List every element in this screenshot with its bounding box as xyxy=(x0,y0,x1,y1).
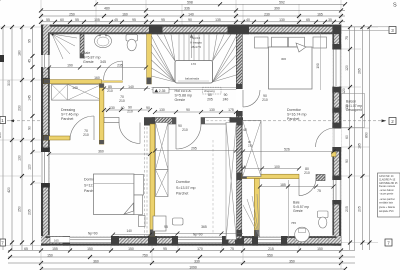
svg-text:120: 120 xyxy=(28,164,32,170)
svg-text:185: 185 xyxy=(280,183,286,187)
BL bedroom door xyxy=(119,123,140,144)
svg-text:210: 210 xyxy=(127,109,133,113)
svg-text:750: 750 xyxy=(142,253,148,257)
BL bed xyxy=(94,174,135,215)
svg-text:75: 75 xyxy=(345,36,349,40)
svg-text:140: 140 xyxy=(72,86,78,90)
svg-text:- acces balcon: - acces balcon xyxy=(379,190,395,192)
svg-text:CLADIRE P+1E: CLADIRE P+1E xyxy=(379,178,396,181)
interior gray wall: stair right vertical x236-242 top xyxy=(236,34,242,116)
svg-text:265: 265 xyxy=(358,68,362,74)
svg-text:H treapta: H treapta xyxy=(190,40,202,44)
svg-text:420: 420 xyxy=(7,187,11,193)
svg-text:- acces gresie: - acces gresie xyxy=(379,193,394,196)
TL bath door xyxy=(104,61,123,80)
furniture: TL toilet xyxy=(126,35,138,42)
porch step box outside bottom wall xyxy=(50,237,70,243)
svg-text:295: 295 xyxy=(191,147,197,151)
svg-text:75: 75 xyxy=(230,247,234,251)
svg-text:Parchet: Parchet xyxy=(61,117,73,121)
svg-text:526: 526 xyxy=(284,148,290,152)
svg-text:135: 135 xyxy=(215,18,221,22)
svg-text:S=5.88 mp: S=5.88 mp xyxy=(175,94,192,98)
svg-text:890: 890 xyxy=(365,132,369,138)
svg-text:155: 155 xyxy=(52,247,58,251)
svg-text:90: 90 xyxy=(28,126,32,130)
yellow wall H1 (bath south) xyxy=(44,80,123,84)
svg-text:40: 40 xyxy=(121,106,125,110)
yellow wall V1 (dressing east) xyxy=(99,84,104,145)
svg-text:Gresie: Gresie xyxy=(83,60,94,64)
yellow wall V3 (center, long) xyxy=(150,124,155,236)
svg-text:165: 165 xyxy=(317,12,323,16)
stair walk line xyxy=(190,35,193,59)
stairs xyxy=(151,34,236,89)
svg-text:65: 65 xyxy=(306,18,310,22)
svg-text:140: 140 xyxy=(188,12,194,16)
svg-text:28x17.5: 28x17.5 xyxy=(191,45,201,49)
svg-text:GROSIME ZID 25: GROSIME ZID 25 xyxy=(379,183,398,185)
svg-text:235: 235 xyxy=(117,64,123,68)
balcony outline xyxy=(342,94,365,128)
bath partition stub xyxy=(80,34,84,58)
interior gray wall: middle horizontal y117.5 xyxy=(152,118,176,125)
svg-text:balustrada: balustrada xyxy=(185,77,199,81)
svg-text:210: 210 xyxy=(262,98,268,102)
svg-text:890: 890 xyxy=(0,132,2,138)
svg-text:tamplarie PVC: tamplarie PVC xyxy=(379,210,394,213)
exterior walls: two-band cavity construction xyxy=(41,25,341,246)
svg-text:205: 205 xyxy=(207,98,213,102)
svg-text:160: 160 xyxy=(122,12,128,16)
window right wall (bedroom) xyxy=(332,50,341,87)
svg-text:- acces parchet: - acces parchet xyxy=(379,198,395,201)
left marker dashed arrow xyxy=(7,120,41,122)
svg-text:Dormitor: Dormitor xyxy=(176,180,191,184)
svg-text:90: 90 xyxy=(186,108,190,112)
svg-text:765: 765 xyxy=(291,221,296,225)
svg-text:480: 480 xyxy=(104,7,110,11)
window bottom wall (BM bedroom) xyxy=(178,236,222,243)
left winder fan xyxy=(151,36,175,82)
svg-text:160: 160 xyxy=(94,76,100,80)
svg-text:190: 190 xyxy=(67,64,73,68)
bath BR door xyxy=(299,179,316,196)
door opening in bedroom left wall xyxy=(236,89,243,111)
svg-text:145: 145 xyxy=(28,95,32,101)
svg-text:CASO NR. 2C: CASO NR. 2C xyxy=(379,175,394,178)
legend box xyxy=(378,173,400,217)
right dimension chain lines xyxy=(350,27,370,250)
top flight treads xyxy=(178,34,180,60)
window left wall (bedroom) xyxy=(41,148,50,188)
svg-text:105: 105 xyxy=(94,18,100,22)
svg-text:210: 210 xyxy=(182,128,188,132)
bottom landing edge xyxy=(151,87,236,89)
dashed beam line through bedroom to marker 2 xyxy=(243,120,388,122)
small yellow pier right wall xyxy=(332,152,337,157)
dressing door xyxy=(70,116,94,140)
balcony door xyxy=(316,128,335,147)
svg-text:130: 130 xyxy=(279,18,285,22)
svg-text:140: 140 xyxy=(128,85,134,89)
svg-text:235: 235 xyxy=(28,209,32,215)
window bottom wall (BL bedroom) xyxy=(70,236,111,243)
svg-text:gresie + faianta: gresie + faianta xyxy=(379,206,395,209)
yellow wall H3 (bath north) xyxy=(242,174,299,178)
svg-text:35: 35 xyxy=(328,18,332,22)
svg-text:95: 95 xyxy=(132,18,136,22)
BR toilet xyxy=(318,211,329,218)
svg-text:345: 345 xyxy=(100,60,106,64)
window left wall small (bath) xyxy=(41,55,50,67)
svg-text:210: 210 xyxy=(248,144,253,148)
svg-text:150: 150 xyxy=(128,247,134,251)
left wall xyxy=(41,25,50,246)
svg-text:S=16.74 mp: S=16.74 mp xyxy=(287,113,306,117)
svg-text:210: 210 xyxy=(119,99,125,103)
pier right of bath door xyxy=(316,175,325,181)
svg-text:95: 95 xyxy=(163,247,167,251)
svg-text:598: 598 xyxy=(187,1,193,5)
yellow wall H2 (dressing south) xyxy=(44,136,70,140)
svg-text:365: 365 xyxy=(201,225,207,229)
dressing wardrobe X xyxy=(52,84,103,100)
BM bedroom door xyxy=(176,124,201,149)
svg-text:Hol cu c.a.: Hol cu c.a. xyxy=(175,89,192,93)
svg-text:130: 130 xyxy=(109,106,115,110)
svg-text:210: 210 xyxy=(83,133,89,137)
svg-text:S=13.57 mp: S=13.57 mp xyxy=(176,186,195,190)
interior dim texts xyxy=(67,64,321,229)
svg-text:90: 90 xyxy=(188,18,192,22)
dashed line left of V3 xyxy=(144,127,146,236)
svg-text:120: 120 xyxy=(342,88,346,94)
svg-text:Gresie: Gresie xyxy=(175,98,186,102)
svg-text:390: 390 xyxy=(274,7,280,11)
right winder fan xyxy=(213,34,218,61)
svg-text:Parchet: Parchet xyxy=(176,192,188,196)
balcony door opening in right wall xyxy=(332,129,341,148)
svg-text:592: 592 xyxy=(279,1,285,5)
top dimension chain lines xyxy=(41,4,345,22)
svg-text:185: 185 xyxy=(358,143,362,149)
svg-text:120: 120 xyxy=(345,65,349,71)
svg-text:55: 55 xyxy=(46,18,50,22)
svg-text:306: 306 xyxy=(281,57,286,61)
svg-text:100: 100 xyxy=(274,165,280,169)
svg-text:210: 210 xyxy=(304,171,310,175)
BR shower screen dashed xyxy=(288,180,290,238)
BR sink pedestal xyxy=(295,227,310,242)
svg-text:95: 95 xyxy=(161,18,165,22)
top wall xyxy=(41,25,341,35)
svg-text:ventilatie baie: ventilatie baie xyxy=(379,202,394,205)
closet column X between BM and wall xyxy=(226,123,236,240)
TL door fan xyxy=(52,34,77,59)
svg-text:360: 360 xyxy=(98,150,104,154)
svg-text:55: 55 xyxy=(75,18,79,22)
yellow wall V2 (stair left) xyxy=(147,34,152,84)
chepeng dashed hatch xyxy=(203,87,222,94)
BM desk + chair xyxy=(153,216,166,231)
svg-text:205: 205 xyxy=(358,206,362,212)
svg-text:Dormitor: Dormitor xyxy=(287,108,302,112)
doors (arcs) xyxy=(70,61,335,196)
svg-text:230: 230 xyxy=(264,12,270,16)
svg-text:Np=90: Np=90 xyxy=(193,233,203,237)
yellow wall V4 (bath west) xyxy=(254,179,259,236)
svg-text:330: 330 xyxy=(194,259,200,263)
svg-text:180: 180 xyxy=(18,50,22,56)
stair text block xyxy=(190,36,202,49)
BM wardrobe with X tall xyxy=(156,123,169,170)
TR bedroom door from hall xyxy=(243,90,260,107)
svg-text:150: 150 xyxy=(87,247,93,251)
dimension extension lines top xyxy=(41,0,341,27)
svg-text:90: 90 xyxy=(224,93,228,97)
svg-text:65: 65 xyxy=(24,247,28,251)
svg-text:60: 60 xyxy=(60,18,64,22)
top dim ticks xyxy=(0,0,2,2)
bottom dimension chain lines xyxy=(8,251,355,270)
svg-text:Descoperit: Descoperit xyxy=(346,108,362,112)
svg-text:80: 80 xyxy=(208,93,212,97)
svg-text:140: 140 xyxy=(127,229,133,233)
svg-text:S: S xyxy=(393,3,397,9)
svg-text:Baie: Baie xyxy=(83,51,90,55)
svg-text:110: 110 xyxy=(240,165,246,169)
svg-text:95: 95 xyxy=(164,225,168,229)
svg-text:S=7.46 mp: S=7.46 mp xyxy=(61,113,78,117)
svg-text:Dressing: Dressing xyxy=(61,108,75,112)
window bottom wall (bath BR) xyxy=(258,236,281,243)
window right wall (bath) xyxy=(332,180,341,200)
bottom wall xyxy=(41,236,341,246)
svg-text:130: 130 xyxy=(159,108,165,112)
top dim numbers xyxy=(46,1,332,23)
interior gray wall: continues to bottom xyxy=(236,116,242,239)
svg-text:130: 130 xyxy=(18,155,22,161)
svg-text:130: 130 xyxy=(209,108,215,112)
svg-text:250: 250 xyxy=(18,206,22,212)
svg-text:Np=90: Np=90 xyxy=(88,232,98,236)
room labels xyxy=(61,51,362,237)
svg-text:Np=15: Np=15 xyxy=(192,36,201,40)
BL side cabinets xyxy=(134,175,144,196)
svg-text:336: 336 xyxy=(184,7,190,11)
svg-text:40: 40 xyxy=(246,18,250,22)
svg-text:45: 45 xyxy=(114,18,118,22)
svg-text:360: 360 xyxy=(93,259,99,263)
svg-text:170: 170 xyxy=(197,247,203,251)
svg-text:205: 205 xyxy=(345,206,349,212)
svg-text:2.35: 2.35 xyxy=(159,89,166,93)
svg-text:215: 215 xyxy=(268,247,274,251)
svg-text:60: 60 xyxy=(345,135,349,139)
svg-text:Gresie: Gresie xyxy=(293,209,303,213)
svg-text:230: 230 xyxy=(18,105,22,111)
interior dim lines xyxy=(49,68,334,235)
level marker hall xyxy=(153,88,169,94)
bottom window extension lines xyxy=(31,152,341,269)
svg-text:550: 550 xyxy=(267,253,273,257)
svg-text:175: 175 xyxy=(228,108,234,112)
balustrade xyxy=(175,61,213,84)
svg-text:S=5.87 mp: S=5.87 mp xyxy=(83,56,100,60)
svg-text:240: 240 xyxy=(223,98,229,102)
BR corner shower fan xyxy=(243,194,260,237)
svg-text:350: 350 xyxy=(289,259,295,263)
svg-text:95: 95 xyxy=(28,39,32,43)
svg-text:250: 250 xyxy=(69,12,75,16)
TR wardrobe with X xyxy=(243,121,261,177)
svg-text:1090: 1090 xyxy=(189,265,197,269)
right wall xyxy=(332,25,341,246)
svg-text:210: 210 xyxy=(107,89,113,93)
svg-text:170: 170 xyxy=(191,62,196,66)
left dimension chain lines xyxy=(3,27,33,250)
svg-text:90: 90 xyxy=(146,106,150,110)
svg-text:150: 150 xyxy=(317,247,323,251)
svg-text:165: 165 xyxy=(54,238,59,242)
dashed vent line BM room xyxy=(212,140,214,233)
svg-text:300: 300 xyxy=(7,80,11,86)
svg-text:Parchet: Parchet xyxy=(287,117,299,121)
svg-text:40: 40 xyxy=(243,128,247,132)
svg-text:75: 75 xyxy=(317,189,321,193)
svg-text:90: 90 xyxy=(345,159,349,163)
TR bedroom furniture: nightstands + pillows + bed xyxy=(255,37,269,48)
svg-text:150: 150 xyxy=(47,253,53,257)
furniture: TL sink xyxy=(95,34,112,47)
svg-text:190: 190 xyxy=(316,63,320,69)
svg-text:45: 45 xyxy=(28,59,32,63)
svg-text:Fiecare camera: Fiecare camera xyxy=(379,185,396,188)
